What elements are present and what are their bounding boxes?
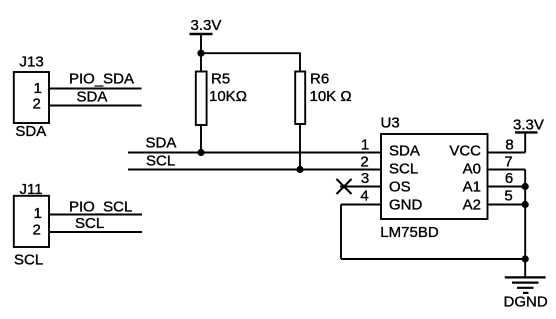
svg-text:GND: GND: [389, 197, 423, 214]
wire J13 pin 1: [49, 88, 142, 90]
svg-text:SDA: SDA: [146, 135, 177, 152]
svg-text:1: 1: [34, 205, 42, 222]
wire U3 pin 4 (GND) left stub: [341, 204, 381, 206]
wire from junction to R6 branch: [201, 52, 300, 54]
power symbol 3.3V (top rail): [190, 17, 222, 34]
resistor R5: [196, 71, 247, 126]
wire SCL bus to U3 pin 2: [128, 169, 381, 171]
wire J13 pin 2: [49, 105, 142, 107]
svg-text:2: 2: [33, 95, 41, 112]
wire GND bottom run to ground: [341, 258, 525, 260]
svg-text:J13: J13: [20, 53, 44, 70]
op-amp U3 body (LM75BD): [380, 114, 487, 241]
svg-text:OS: OS: [389, 179, 411, 196]
svg-text:A1: A1: [463, 179, 481, 196]
svg-text:R6: R6: [310, 71, 329, 88]
svg-text:5: 5: [504, 187, 512, 204]
wire R5 bottom to SDA bus: [200, 125, 202, 153]
svg-text:10KΩ: 10KΩ: [209, 88, 247, 105]
svg-text:PIO_SCL: PIO_SCL: [69, 199, 132, 216]
wire SDA bus to U3 pin 1: [128, 152, 381, 154]
svg-text:SCL: SCL: [146, 153, 175, 170]
svg-text:LM75BD: LM75BD: [380, 224, 439, 241]
svg-text:3: 3: [361, 170, 369, 187]
wire down to R6 top: [299, 52, 301, 71]
svg-text:2: 2: [33, 222, 41, 239]
junction dot GND bottom run / ground rail: [522, 255, 529, 262]
svg-text:SCL: SCL: [389, 161, 418, 178]
svg-text:U3: U3: [381, 114, 400, 131]
svg-text:2: 2: [360, 153, 368, 170]
svg-text:A2: A2: [463, 197, 481, 214]
junction dot A2/ground rail: [522, 201, 529, 208]
svg-text:7: 7: [504, 153, 512, 170]
wire U3 pin 5 (A2): [488, 204, 526, 206]
junction dot A1/ground rail: [522, 183, 529, 190]
ground symbol DGND: [504, 277, 548, 310]
svg-text:DGND: DGND: [504, 294, 548, 311]
svg-text:3.3V: 3.3V: [513, 117, 544, 134]
svg-text:10K Ω: 10K Ω: [310, 88, 352, 105]
connector J13: [14, 53, 49, 140]
svg-text:SCL: SCL: [14, 252, 43, 269]
svg-text:1: 1: [361, 136, 369, 153]
junction dot at 3.3V rail split: [197, 50, 204, 57]
svg-text:SDA: SDA: [77, 89, 108, 106]
wire GND down segment: [340, 205, 342, 260]
wire J11 pin 2: [49, 231, 142, 233]
svg-text:SCL: SCL: [75, 215, 104, 232]
svg-text:A0: A0: [463, 161, 481, 178]
svg-text:PIO_SDA: PIO_SDA: [69, 71, 134, 88]
wire R6 bottom to SCL bus (crosses SDA): [299, 124, 301, 170]
junction dot R5/SDA: [197, 149, 204, 156]
svg-text:6: 6: [505, 170, 513, 187]
svg-text:SDA: SDA: [15, 123, 46, 140]
wire U3 pin 7 (A0): [488, 169, 526, 171]
svg-text:4: 4: [360, 187, 368, 204]
wire from 3.3V bar down to R5 top: [200, 34, 202, 72]
wire A0 down to ground rail: [524, 170, 526, 278]
svg-text:R5: R5: [211, 71, 230, 88]
svg-text:3.3V: 3.3V: [191, 17, 222, 34]
connector J11: [14, 181, 49, 269]
svg-text:VCC: VCC: [449, 143, 481, 160]
no-connect X on U3 pin 3: [337, 179, 352, 194]
svg-text:SDA: SDA: [389, 143, 420, 160]
power symbol 3.3V (right): [513, 117, 544, 134]
wire U3 pin 8 (VCC) to 3.3V: [488, 152, 526, 154]
svg-text:8: 8: [505, 136, 513, 153]
wire U3 pin 6 (A1): [488, 186, 526, 188]
junction dot R6/SCL: [296, 166, 303, 173]
resistor R6: [295, 71, 351, 125]
wire up to right 3.3V bar: [524, 132, 526, 152]
wire J11 pin 1: [49, 214, 142, 216]
wire U3 pin 3 stub: [340, 186, 381, 188]
